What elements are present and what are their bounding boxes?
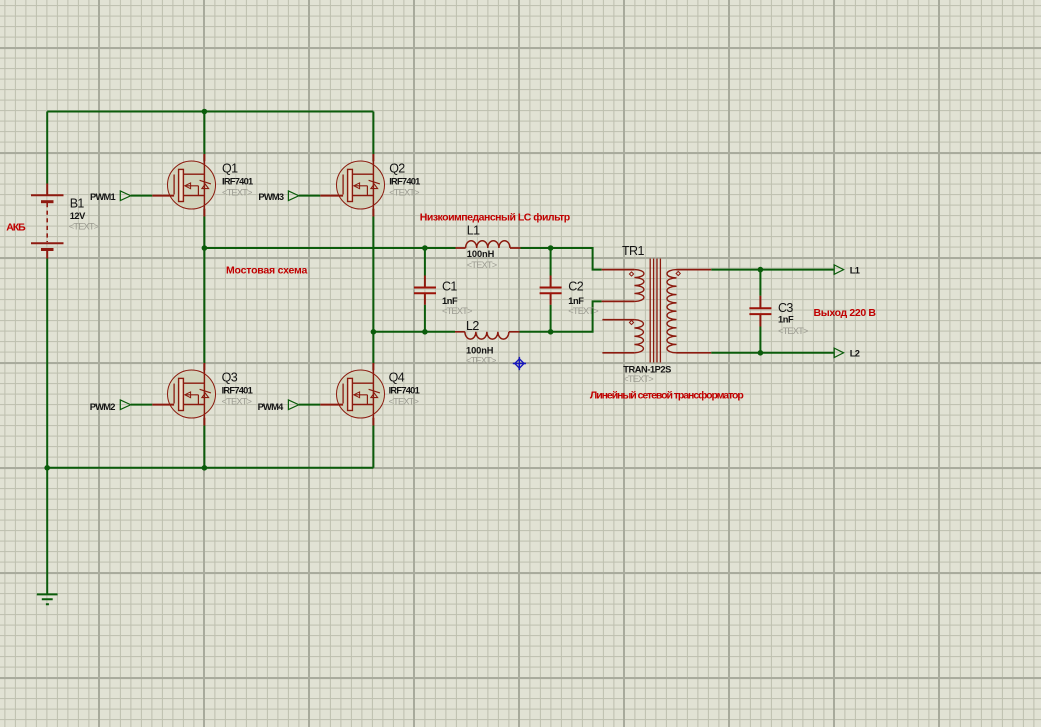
wire Q3 source: [203, 426, 205, 468]
terminal L2 output: [834, 348, 843, 357]
svg-text:<TEXT>: <TEXT>: [442, 306, 472, 316]
svg-text:Выход 220 В: Выход 220 В: [814, 307, 877, 319]
transformer TR1: [602, 259, 712, 363]
wire C1 top: [424, 248, 426, 276]
svg-text:C3: C3: [778, 301, 793, 315]
wire PWM2: [131, 404, 153, 406]
svg-text:Q1: Q1: [222, 162, 238, 176]
svg-text:Q3: Q3: [222, 371, 238, 385]
wire bottom rail: [47, 467, 373, 469]
node C2 top: [548, 245, 554, 251]
inductor L1: [456, 241, 521, 248]
svg-text:<TEXT>: <TEXT>: [69, 222, 99, 232]
wire Q4 drain: [372, 332, 374, 363]
capacitor C2: [540, 276, 562, 305]
svg-text:1nF: 1nF: [442, 296, 458, 306]
svg-text:B1: B1: [70, 196, 85, 210]
svg-text:IRF7401: IRF7401: [222, 176, 253, 186]
wire C3 bottom: [759, 327, 761, 353]
terminal PWM4: [288, 400, 298, 410]
transistor Q3: [152, 363, 215, 426]
svg-text:TRAN-1P2S: TRAN-1P2S: [623, 364, 671, 374]
terminal PWM1: [120, 191, 130, 201]
blue origin marker: [513, 357, 526, 370]
svg-text:1nF: 1nF: [778, 315, 794, 325]
svg-text:<TEXT>: <TEXT>: [623, 374, 653, 384]
svg-text:<TEXT>: <TEXT>: [778, 326, 808, 336]
svg-text:C2: C2: [568, 279, 583, 293]
svg-text:L2: L2: [850, 349, 860, 359]
node C3 bottom: [758, 350, 764, 356]
svg-text:100nH: 100nH: [466, 345, 494, 355]
svg-text:<TEXT>: <TEXT>: [568, 306, 598, 316]
wire PWM3: [299, 195, 321, 197]
node battery / bottom rail: [44, 465, 50, 471]
terminal L1 output: [834, 265, 843, 274]
node mid rail / Q1 source: [202, 245, 208, 251]
wire C1 bottom: [424, 305, 426, 332]
svg-text:<TEXT>: <TEXT>: [389, 187, 419, 197]
wire Q1 source: [203, 217, 205, 249]
wire Q1 drain: [203, 112, 205, 155]
svg-text:TR1: TR1: [622, 244, 644, 258]
svg-text:1nF: 1nF: [568, 296, 584, 306]
node C2 bottom: [548, 329, 554, 335]
svg-text:Мостовая схема: Мостовая схема: [226, 265, 307, 277]
wire C3 top: [759, 270, 761, 296]
svg-text:Линейный сетевой трансформатор: Линейный сетевой трансформатор: [590, 389, 744, 401]
svg-text:L1: L1: [850, 265, 860, 275]
wire mid rail right: [521, 248, 602, 270]
terminal PWM2: [120, 400, 130, 410]
wire top rail: [47, 111, 373, 113]
svg-text:<TEXT>: <TEXT>: [222, 396, 252, 406]
node C1 bottom: [422, 329, 428, 335]
svg-text:IRF7401: IRF7401: [389, 176, 420, 186]
svg-text:IRF7401: IRF7401: [389, 385, 420, 395]
svg-text:PWM4: PWM4: [258, 402, 284, 412]
wire mid rail left: [204, 247, 455, 249]
svg-text:Q2: Q2: [389, 162, 405, 176]
svg-text:100nH: 100nH: [467, 249, 495, 259]
svg-text:<TEXT>: <TEXT>: [466, 355, 496, 365]
transistor Q4: [320, 363, 384, 426]
transistor Q1: [152, 154, 215, 217]
wire lower rail left: [373, 331, 455, 333]
wire battery bottom to ground: [46, 259, 48, 595]
svg-text:Низкоимпедансный LC фильтр: Низкоимпедансный LC фильтр: [420, 211, 570, 223]
node C3 top: [758, 267, 764, 273]
wire battery top: [46, 112, 48, 184]
wire PWM1: [131, 195, 153, 197]
svg-text:<TEXT>: <TEXT>: [222, 187, 252, 197]
svg-text:PWM3: PWM3: [258, 192, 283, 202]
wire C2 top: [550, 248, 552, 276]
wire Q2 source: [372, 217, 374, 332]
svg-text:PWM2: PWM2: [90, 402, 115, 412]
svg-text:<TEXT>: <TEXT>: [467, 260, 497, 270]
capacitor C3: [749, 296, 771, 327]
wire Q3 drain: [203, 248, 205, 363]
node top rail / Q1 drain: [202, 109, 208, 115]
svg-text:<TEXT>: <TEXT>: [389, 396, 419, 406]
wire PWM4: [299, 404, 321, 406]
wire lower rail right: [520, 301, 602, 331]
svg-text:АКБ: АКБ: [6, 222, 26, 234]
svg-text:IRF7401: IRF7401: [222, 385, 253, 395]
capacitor C1: [414, 276, 436, 305]
node bottom rail / Q3 source: [202, 465, 208, 471]
wire secondary top to L1 terminal: [711, 269, 834, 271]
wire Q4 source: [372, 426, 374, 468]
node Q2 source / lower rail: [371, 329, 377, 335]
battery B1: [31, 184, 64, 259]
ground: [37, 594, 58, 604]
transistor Q2: [320, 154, 384, 217]
wire C2 bottom: [550, 305, 552, 332]
svg-text:C1: C1: [442, 279, 457, 293]
terminal PWM3: [288, 191, 298, 201]
svg-text:L1: L1: [467, 224, 480, 238]
svg-text:Q4: Q4: [389, 371, 405, 385]
svg-text:12V: 12V: [70, 211, 86, 221]
node C1 top: [422, 245, 428, 251]
svg-text:PWM1: PWM1: [90, 192, 115, 202]
wire Q2 drain: [372, 112, 374, 155]
wire secondary bottom to L2 terminal: [711, 352, 834, 354]
inductor L2: [455, 332, 520, 339]
svg-text:L2: L2: [466, 319, 479, 333]
